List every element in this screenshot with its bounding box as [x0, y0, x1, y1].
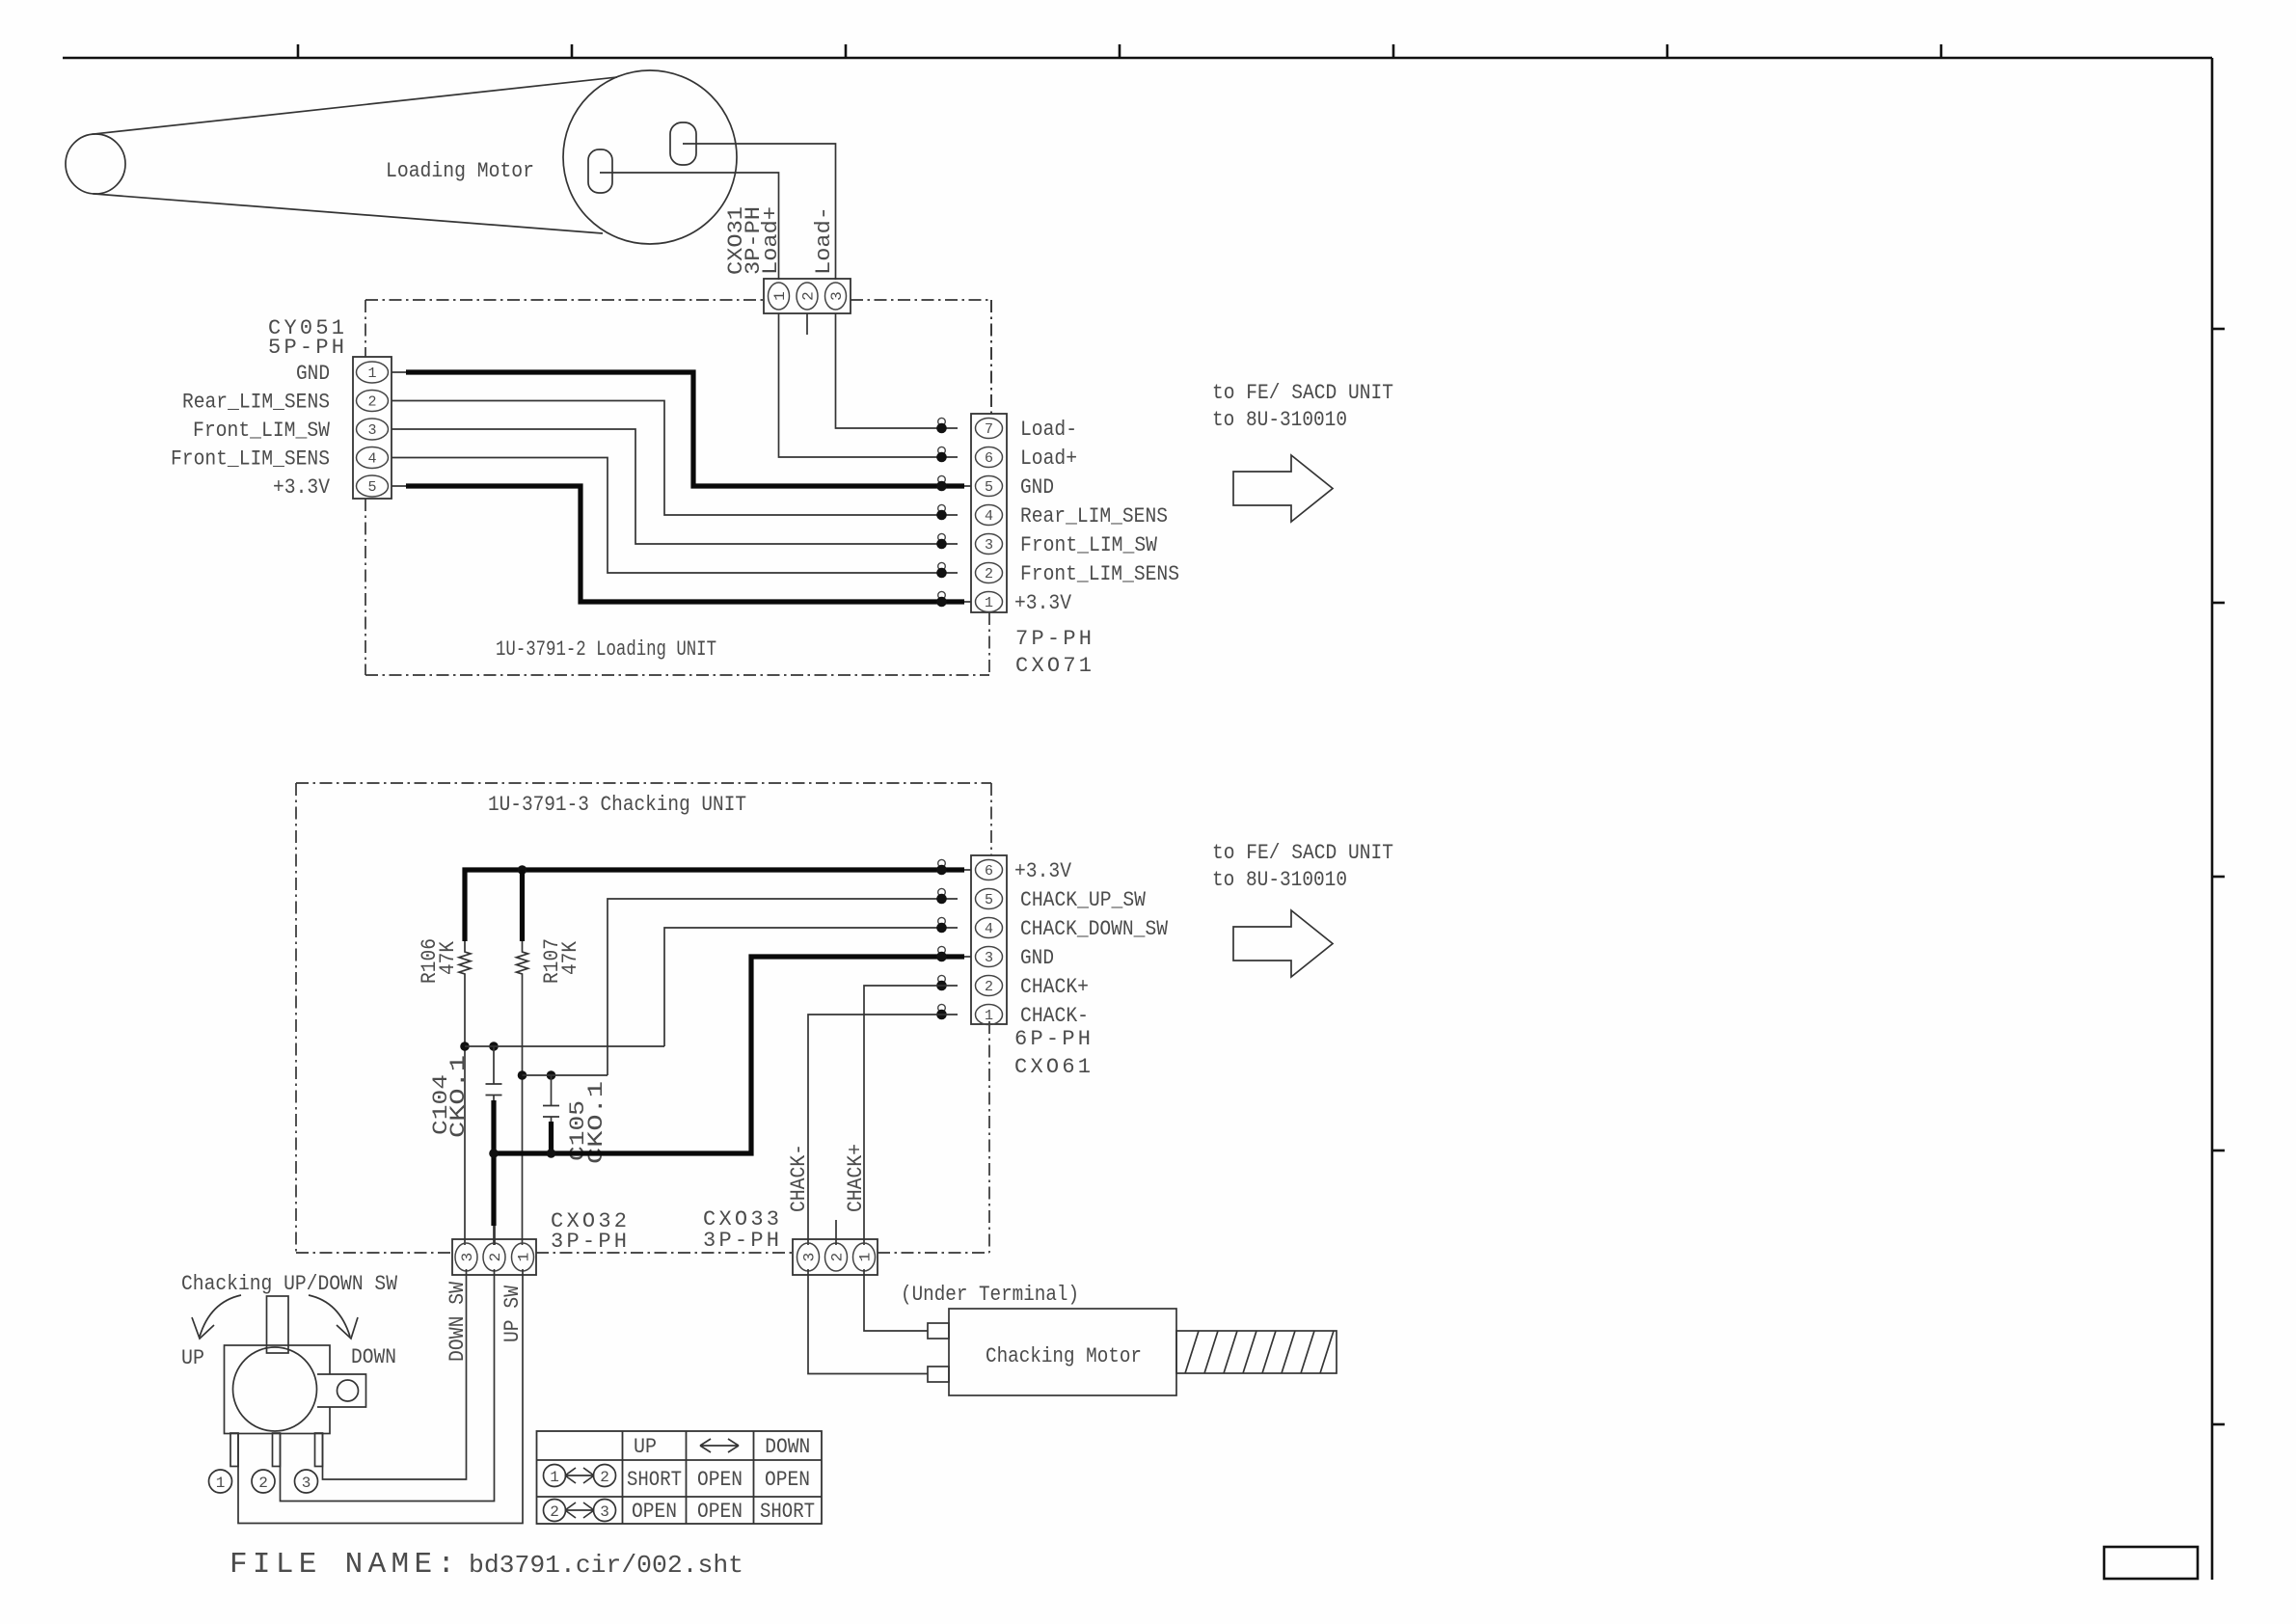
junction Front_LIM_SW — [938, 533, 946, 541]
svg-text:+3.3V: +3.3V — [1014, 591, 1072, 615]
svg-text:Front_LIM_SENS: Front_LIM_SENS — [171, 447, 330, 472]
svg-text:3: 3 — [302, 1475, 311, 1492]
junction CHACK_DOWN_SW — [938, 917, 946, 925]
CX061 pin 6 — [976, 860, 1003, 880]
R107 thick lead — [520, 870, 525, 941]
wire CX031 pin3 to CX071 pin7 (Load-) — [836, 313, 934, 428]
svg-text:5: 5 — [985, 479, 993, 496]
motor terminal pill upper — [670, 122, 696, 165]
switch arrowhead left — [192, 1317, 214, 1339]
svg-text:4: 4 — [367, 451, 376, 468]
svg-text:6: 6 — [985, 863, 993, 880]
svg-text:2: 2 — [258, 1475, 268, 1492]
node R107/C105/CHACK_UP wire — [518, 1070, 527, 1080]
svg-text:UP SW: UP SW — [500, 1285, 525, 1342]
wire switch leg3 to CX032 pin3 DOWN SW — [323, 1269, 467, 1479]
svg-text:CHACK-: CHACK- — [787, 1144, 811, 1212]
capacitor C104 — [493, 1046, 495, 1084]
wire motor lower terminal to CX031 pin1 — [600, 173, 779, 280]
motor shaft — [1176, 1331, 1337, 1373]
wire switch leg2 to CX032 pin2 — [281, 1269, 495, 1502]
svg-text:5P-PH: 5P-PH — [268, 336, 344, 360]
CX033 pin2 stub — [835, 1220, 837, 1245]
Chacking UNIT dashed box bottom edge — [296, 1252, 452, 1254]
svg-text:Load+: Load+ — [759, 206, 783, 275]
R107 lower lead — [522, 978, 524, 1245]
svg-text:1: 1 — [367, 365, 376, 382]
svg-text:5: 5 — [985, 892, 993, 908]
switch arc left — [200, 1295, 241, 1337]
svg-text:+3.3V: +3.3V — [273, 475, 331, 500]
CX061 pin 5 — [976, 889, 1003, 909]
resistor R106 — [459, 941, 471, 978]
svg-text:3: 3 — [801, 1253, 819, 1262]
svg-text:2: 2 — [985, 566, 993, 582]
switch pin circled 3 — [295, 1470, 318, 1493]
CY051 pin 3 — [357, 419, 389, 440]
svg-text:3: 3 — [459, 1253, 476, 1262]
capacitor C105 — [551, 1075, 553, 1106]
junction dot R107 top — [518, 865, 527, 875]
svg-text:DOWN: DOWN — [765, 1435, 810, 1459]
switch state table — [537, 1431, 823, 1524]
pulley small circle — [66, 134, 125, 194]
svg-text:2: 2 — [550, 1503, 559, 1521]
connector CX061 6P-PH — [971, 855, 1007, 1024]
table row2 circled 2-3 — [544, 1500, 566, 1522]
junction Load- — [938, 418, 946, 425]
svg-text:OPEN: OPEN — [632, 1500, 677, 1524]
wire Front_LIM_SW CY051 pin3 to CX071 pin3 — [392, 429, 958, 544]
motor terminal pill lower — [588, 149, 612, 193]
wire to CX061 pin4 CHACK_DOWN_SW — [664, 928, 958, 1046]
wire Front_LIM_SENS CY051 pin4 to CX071 pin2 — [392, 458, 958, 574]
svg-text:Rear_LIM_SENS: Rear_LIM_SENS — [182, 391, 330, 415]
svg-text:(Under Terminal): (Under Terminal) — [901, 1283, 1079, 1307]
junction Front_LIM_SENS — [938, 562, 946, 570]
wire CHACK+ CX033 pin1 to CX061 pin2 — [864, 986, 958, 1245]
CY051 pin 4 — [357, 447, 389, 469]
svg-text:Chacking Motor: Chacking Motor — [986, 1344, 1142, 1368]
svg-text:3P-PH: 3P-PH — [551, 1230, 627, 1254]
border right ticks — [2212, 329, 2225, 1424]
svg-text:2: 2 — [367, 394, 376, 411]
svg-text:3: 3 — [985, 950, 993, 966]
dashed stub above CX071 — [990, 300, 992, 414]
CX031 pin 3 — [825, 283, 847, 310]
svg-text:CHACK_UP_SW: CHACK_UP_SW — [1020, 888, 1147, 912]
svg-text:Load-: Load- — [812, 206, 836, 275]
svg-text:UP: UP — [181, 1346, 204, 1370]
junction GND — [938, 946, 946, 954]
svg-text:CXO61: CXO61 — [1014, 1055, 1091, 1079]
svg-text:to FE/ SACD UNIT: to FE/ SACD UNIT — [1212, 381, 1393, 405]
CX031 pin 1 — [769, 283, 790, 310]
wire motor upper terminal to CX031 pin3 — [683, 144, 836, 280]
switch arrowhead right — [337, 1317, 358, 1339]
CX033 pin 2 — [825, 1243, 848, 1271]
CY051 pin 5 — [357, 475, 389, 497]
border top ticks — [298, 44, 1941, 58]
switch side tab — [317, 1374, 366, 1407]
wire +3.3V thick CY051 pin5 to CX071 pin1 — [392, 485, 407, 487]
wire CX031 pin1 to CX071 pin6 (Load+) — [779, 313, 934, 457]
svg-text:Front_LIM_SENS: Front_LIM_SENS — [1020, 562, 1179, 586]
svg-text:Loading Motor: Loading Motor — [386, 159, 534, 183]
svg-text:6P-PH: 6P-PH — [1014, 1027, 1091, 1051]
svg-text:bd3791.cir/002.sht: bd3791.cir/002.sht — [469, 1551, 743, 1580]
CX071 pin 6 — [976, 447, 1003, 468]
svg-text:UP: UP — [634, 1435, 657, 1459]
svg-text:1: 1 — [550, 1469, 559, 1486]
belt lower line — [93, 194, 603, 233]
svg-text:3: 3 — [367, 422, 376, 439]
CX033 pin 3 — [797, 1243, 820, 1271]
switch stem — [267, 1296, 289, 1353]
svg-text:1: 1 — [985, 595, 993, 611]
svg-text:to 8U-310010: to 8U-310010 — [1212, 868, 1347, 892]
svg-text:3: 3 — [600, 1503, 609, 1521]
svg-text:1U-3791-3 Chacking UNIT: 1U-3791-3 Chacking UNIT — [488, 793, 746, 817]
svg-text:DOWN: DOWN — [351, 1345, 396, 1369]
svg-text:OPEN: OPEN — [697, 1468, 743, 1492]
svg-text:1: 1 — [771, 291, 789, 301]
belt upper line — [92, 77, 617, 134]
svg-text:47K: 47K — [436, 940, 460, 975]
connector CX031 3P-PH — [764, 279, 851, 313]
svg-text:1: 1 — [985, 1008, 993, 1024]
switch body — [225, 1345, 331, 1434]
svg-text:3P-PH: 3P-PH — [703, 1229, 779, 1253]
GND wire CX032 pin2 upper — [494, 1226, 496, 1245]
svg-text:5: 5 — [367, 479, 376, 496]
wire stubs into CX071 — [933, 427, 958, 429]
svg-text:GND: GND — [296, 362, 330, 386]
R106 lower lead — [464, 978, 466, 1245]
svg-text:7: 7 — [985, 421, 993, 438]
CX032 pin 3 — [455, 1243, 477, 1271]
junction CHACK- — [938, 1004, 946, 1012]
title block box bottom right — [2104, 1547, 2198, 1579]
svg-text:3: 3 — [985, 537, 993, 554]
svg-text:1: 1 — [516, 1253, 533, 1262]
Loading UNIT dashed box left edge — [365, 300, 366, 357]
connector CX033 3P-PH — [793, 1239, 878, 1275]
svg-text:CHACK-: CHACK- — [1020, 1004, 1089, 1028]
connector CY051 5P-PH — [353, 357, 392, 499]
node R106/C104/CHACK_DOWN wire — [460, 1042, 470, 1051]
svg-text:to 8U-310010: to 8U-310010 — [1212, 408, 1347, 432]
wire CX033 pin3 to motor lower tab — [808, 1269, 928, 1374]
svg-text:SHORT: SHORT — [760, 1500, 815, 1524]
CX071 pin 2 — [976, 563, 1003, 583]
svg-text:Front_LIM_SW: Front_LIM_SW — [193, 419, 331, 443]
wire switch leg1 to CX032 pin1 UP SW — [238, 1269, 523, 1524]
svg-text:OPEN: OPEN — [765, 1468, 810, 1492]
resistor R107 — [517, 941, 528, 978]
CX061 pin 1 — [976, 1005, 1003, 1025]
Loading UNIT dashed box bottom edge — [365, 674, 989, 676]
switch rotor circle — [233, 1347, 317, 1431]
switch side tab circle — [338, 1380, 359, 1401]
svg-text:Chacking UP/DOWN SW: Chacking UP/DOWN SW — [181, 1272, 398, 1296]
svg-text:OPEN: OPEN — [697, 1500, 743, 1524]
junction CHACK_UP_SW — [938, 888, 946, 896]
CX061 pin 2 — [976, 976, 1003, 996]
wire CX033 pin1 to motor upper tab — [864, 1269, 928, 1331]
CX061 pin 3 — [976, 947, 1003, 967]
border right line — [2211, 58, 2214, 1580]
motor body circle — [563, 70, 737, 244]
+3.3V thick rail — [465, 870, 964, 941]
GND thick net — [494, 957, 964, 1153]
svg-text:SHORT: SHORT — [627, 1468, 682, 1492]
svg-text:GND: GND — [1020, 475, 1054, 500]
switch pin circled 2 — [252, 1470, 275, 1493]
svg-text:2: 2 — [487, 1253, 504, 1262]
Chacking UNIT dashed box left edge — [295, 783, 297, 1253]
Chacking Motor box — [949, 1309, 1176, 1395]
CX032 pin 1 — [512, 1243, 534, 1271]
switch arc right — [309, 1295, 350, 1337]
connector CX071 7P-PH — [971, 414, 1007, 612]
Chacking UNIT dashed box top edge — [296, 782, 991, 784]
svg-text:Load+: Load+ — [1020, 447, 1077, 471]
svg-text:1U-3791-2 Loading UNIT: 1U-3791-2 Loading UNIT — [496, 637, 716, 662]
svg-text:CXO71: CXO71 — [1015, 654, 1092, 678]
CY051 pin 1 — [357, 362, 389, 383]
svg-text:Rear_LIM_SENS: Rear_LIM_SENS — [1020, 504, 1168, 528]
svg-text:4: 4 — [985, 921, 993, 937]
arrow to FE upper — [1233, 455, 1333, 522]
CY051 pin 2 — [357, 391, 389, 412]
CX061 pin 4 — [976, 918, 1003, 938]
svg-text:Load-: Load- — [1020, 418, 1077, 442]
svg-text:2: 2 — [800, 291, 818, 301]
Loading UNIT dashed box top edge — [365, 299, 764, 301]
svg-text:+3.3V: +3.3V — [1014, 859, 1072, 883]
svg-text:6: 6 — [985, 450, 993, 467]
junction +3.3V — [938, 859, 946, 867]
junction Rear_LIM_SENS — [938, 504, 946, 512]
switch pin circled 1 — [209, 1470, 232, 1493]
CX071 pin 5 — [976, 476, 1003, 497]
svg-text:1: 1 — [857, 1253, 875, 1262]
CX071 pin 1 — [976, 592, 1003, 612]
CX032 pin 2 — [483, 1243, 505, 1271]
junction GND — [938, 475, 946, 483]
svg-text:3: 3 — [828, 291, 846, 301]
svg-text:47K: 47K — [558, 940, 582, 975]
CX031 pin 2 — [797, 283, 818, 310]
svg-text:1: 1 — [216, 1475, 226, 1492]
CX071 pin 4 — [976, 505, 1003, 526]
junction CHACK+ — [938, 975, 946, 983]
junction Load+ — [938, 447, 946, 454]
arrow to FE lower — [1233, 910, 1333, 977]
Loading UNIT dashed box right edge — [990, 300, 992, 414]
border top line — [63, 57, 2212, 60]
svg-text:CKO.1: CKO.1 — [446, 1055, 471, 1138]
svg-text:4: 4 — [985, 508, 993, 525]
CX071 pin 3 — [976, 534, 1003, 555]
svg-text:GND: GND — [1020, 946, 1054, 970]
svg-text:CHACK+: CHACK+ — [844, 1144, 868, 1212]
CX033 pin 1 — [853, 1243, 876, 1271]
junction +3.3V — [938, 591, 946, 599]
svg-text:Front_LIM_SW: Front_LIM_SW — [1020, 533, 1158, 557]
svg-text:2: 2 — [829, 1253, 847, 1262]
CX031 pin2 stub — [806, 313, 808, 335]
wire to CX061 pin5 CHACK_UP_SW — [608, 899, 958, 1075]
table header arrow — [700, 1439, 739, 1452]
svg-text:CHACK+: CHACK+ — [1020, 975, 1089, 999]
motor tab upper — [928, 1323, 949, 1339]
svg-text:2: 2 — [985, 979, 993, 995]
wire GND thick CY051 pin1 to CX071 pin5 — [392, 371, 407, 373]
Chacking UNIT dashed box right edge — [990, 783, 992, 855]
svg-text:CHACK_DOWN_SW: CHACK_DOWN_SW — [1020, 917, 1169, 941]
switch legs — [230, 1433, 238, 1467]
table row1 circled 1-2 — [544, 1465, 566, 1487]
wire CHACK- CX033 pin3 to CX061 pin1 — [808, 1015, 958, 1245]
motor tab lower — [928, 1367, 949, 1382]
CX071 pin 7 — [976, 419, 1003, 439]
svg-text:to FE/ SACD UNIT: to FE/ SACD UNIT — [1212, 841, 1393, 865]
svg-text:2: 2 — [600, 1469, 609, 1486]
svg-text:7P-PH: 7P-PH — [1015, 627, 1092, 651]
connector CX032 3P-PH — [452, 1239, 536, 1275]
wire Rear_LIM_SENS CY051 pin2 to CX071 pin4 — [392, 401, 958, 516]
